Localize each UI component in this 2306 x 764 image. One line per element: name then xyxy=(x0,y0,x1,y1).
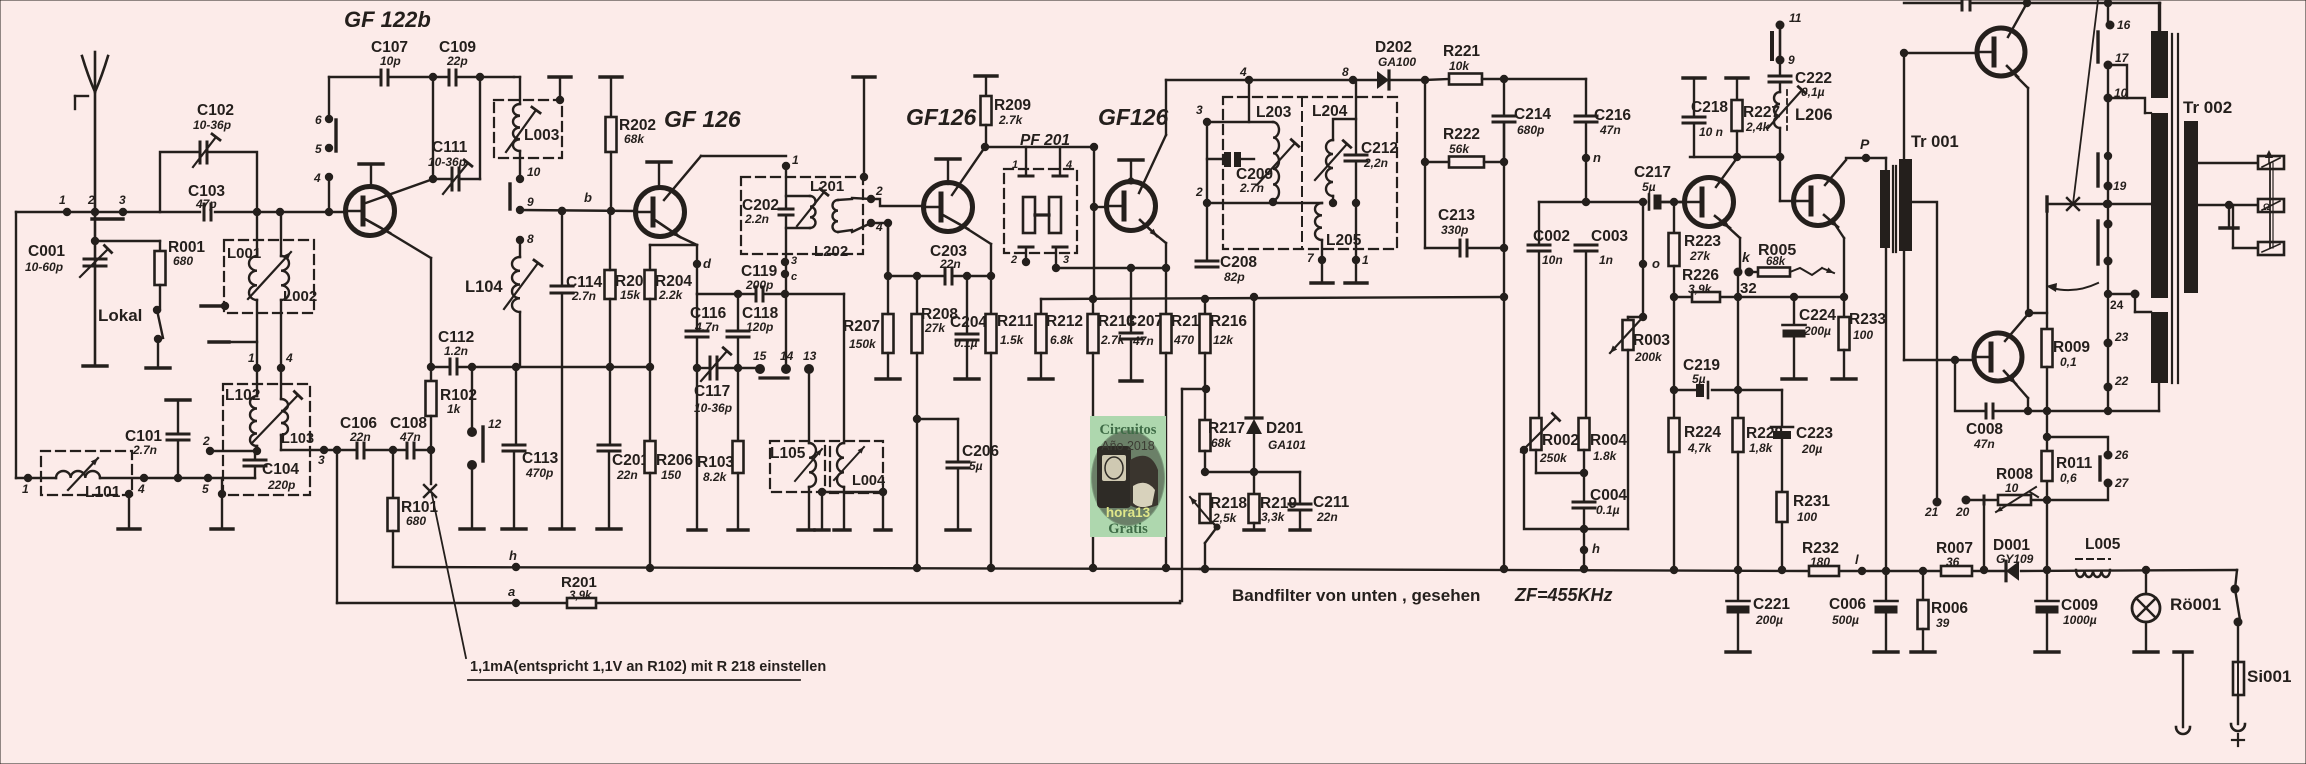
ground C009 xyxy=(2035,650,2059,653)
capacitor C209 xyxy=(1224,152,1231,167)
svg-text:Rö001: Rö001 xyxy=(2170,595,2221,614)
svg-text:GF126: GF126 xyxy=(906,104,977,130)
dashed box L003 xyxy=(494,100,562,158)
transistor T3 GF126 xyxy=(924,183,973,232)
resistor R218 pot xyxy=(1200,494,1211,523)
svg-text:2.7n: 2.7n xyxy=(132,443,157,457)
svg-text:GF 126: GF 126 xyxy=(664,106,741,132)
svg-text:Circuitos: Circuitos xyxy=(1100,422,1157,438)
capacitor C108 xyxy=(406,443,409,458)
svg-text:10: 10 xyxy=(2005,481,2019,495)
ground C211 xyxy=(1290,528,1310,531)
junction R208 elbow xyxy=(913,415,921,423)
resistor R207 xyxy=(887,223,889,276)
svg-text:C223: C223 xyxy=(1796,425,1833,442)
ground mid xyxy=(221,478,223,527)
speaker column mid xyxy=(2107,65,2109,98)
wire 27 down xyxy=(2047,483,2108,500)
node n xyxy=(1582,154,1590,162)
svg-text:2: 2 xyxy=(202,434,210,448)
wire row y=367 xyxy=(431,366,450,368)
svg-text:l: l xyxy=(1855,552,1859,567)
capacitor C217 xyxy=(1648,195,1651,210)
svg-text:4: 4 xyxy=(1239,65,1247,79)
svg-text:10-60p: 10-60p xyxy=(25,260,63,274)
switch bar 6-5 xyxy=(334,120,337,151)
ground lamp xyxy=(2134,650,2158,653)
ground C114 xyxy=(550,527,574,530)
switch under R001 xyxy=(153,306,161,314)
coil L201 xyxy=(786,195,810,197)
svg-text:39: 39 xyxy=(1936,616,1950,630)
svg-text:10-36p: 10-36p xyxy=(428,155,466,169)
terminal bar left of box xyxy=(221,302,229,310)
transformer Tr002 core xyxy=(2171,34,2173,383)
resistor R224 xyxy=(1673,390,1675,418)
svg-text:C204: C204 xyxy=(950,314,987,331)
capacitor C111 trimmer xyxy=(451,168,454,190)
ground R001 switch xyxy=(146,366,170,369)
svg-text:C009: C009 xyxy=(2061,597,2098,614)
svg-text:4: 4 xyxy=(285,351,293,365)
svg-text:2.2k: 2.2k xyxy=(658,288,684,302)
capacitor C112 xyxy=(449,359,452,374)
wire L105-L004 link xyxy=(822,491,883,493)
svg-text:L203: L203 xyxy=(1256,104,1292,121)
svg-text:R003: R003 xyxy=(1633,332,1670,349)
secondary wire mid xyxy=(2198,204,2258,206)
svg-text:R211: R211 xyxy=(997,313,1034,330)
node 27 xyxy=(2104,479,2113,488)
switch bar 16-17 xyxy=(2096,32,2099,62)
svg-text:1: 1 xyxy=(1012,159,1018,171)
wire L103 to node3 xyxy=(281,449,324,451)
svg-text:D201: D201 xyxy=(1266,420,1303,437)
svg-text:4: 4 xyxy=(1065,159,1072,171)
resistor R232 xyxy=(1809,566,1839,576)
svg-text:o: o xyxy=(1652,256,1660,271)
supply bar L003 xyxy=(549,75,571,78)
T1 emitter wire xyxy=(365,219,390,233)
node l xyxy=(1858,567,1866,575)
svg-text:d: d xyxy=(703,256,712,271)
svg-text:4,7k: 4,7k xyxy=(1687,441,1713,455)
wire R002-R004 xyxy=(1536,472,1584,474)
svg-text:180: 180 xyxy=(1810,555,1830,569)
T6 collector xyxy=(1825,160,1846,185)
node a xyxy=(512,599,520,607)
wire pin3 row y=268 xyxy=(1056,267,1166,269)
dashed box L004 xyxy=(830,441,883,493)
svg-text:24: 24 xyxy=(2110,298,2124,312)
svg-text:1.5k: 1.5k xyxy=(1000,333,1025,347)
capacitor C009 xyxy=(2046,570,2048,600)
T4 base lead xyxy=(1094,206,1107,208)
svg-text:C104: C104 xyxy=(262,461,299,478)
wire 17 link xyxy=(2108,65,2127,98)
svg-text:13: 13 xyxy=(803,349,817,363)
capacitor C208 xyxy=(1206,203,1208,261)
svg-text:150: 150 xyxy=(661,468,681,482)
T3 rail bar xyxy=(936,157,960,160)
svg-text:R004: R004 xyxy=(1590,432,1627,449)
svg-text:220p: 220p xyxy=(267,478,295,492)
Tr002 top feed xyxy=(2158,3,2160,31)
svg-text:200k: 200k xyxy=(1634,350,1663,364)
Tr001 secondary top xyxy=(1903,53,1905,160)
arrow L203 xyxy=(1257,143,1295,185)
svg-text:680: 680 xyxy=(406,514,426,528)
node pi xyxy=(1776,21,1785,30)
ground C224 xyxy=(1782,377,1806,380)
T1 collector rail bar xyxy=(359,162,383,165)
column mid2 xyxy=(2107,224,2109,294)
base junction xyxy=(1670,198,1678,206)
ground R212 xyxy=(1029,377,1053,380)
svg-text:200µ: 200µ xyxy=(1755,613,1783,627)
coil L204 xyxy=(1333,119,1356,140)
resistor R226 xyxy=(1692,292,1720,302)
node 2 T3 xyxy=(867,195,875,203)
svg-text:27: 27 xyxy=(2114,476,2130,490)
svg-text:R206: R206 xyxy=(656,452,693,469)
svg-text:20µ: 20µ xyxy=(1801,442,1822,456)
coil L001 xyxy=(253,208,261,216)
capacitor C001 xyxy=(84,258,106,261)
dashed box L101 xyxy=(41,451,132,495)
svg-text:R009: R009 xyxy=(2053,339,2090,356)
capacitor C103 xyxy=(203,204,206,220)
svg-text:P: P xyxy=(1860,136,1870,152)
node 9 xyxy=(516,206,524,214)
svg-text:5: 5 xyxy=(202,482,209,496)
wire node2 to base xyxy=(871,199,924,206)
svg-text:15k: 15k xyxy=(620,288,641,302)
junction C219 xyxy=(1734,386,1742,394)
svg-text:C113: C113 xyxy=(522,450,559,467)
svg-text:2.7k: 2.7k xyxy=(998,113,1024,127)
node 5 xyxy=(325,144,333,152)
wire node2 xyxy=(206,447,214,455)
coil L104 xyxy=(519,240,521,257)
capacitor C116 xyxy=(696,294,698,331)
svg-text:R224: R224 xyxy=(1684,424,1721,441)
transistor T5 xyxy=(1685,178,1734,227)
switch bar 19 xyxy=(2096,154,2099,186)
switch right xyxy=(2231,585,2240,594)
transistor T2 GF126 xyxy=(636,188,685,237)
arrow L003 xyxy=(506,110,536,152)
svg-text:C001: C001 xyxy=(28,243,65,260)
resistor R004 xyxy=(1579,418,1590,450)
node 12 switch xyxy=(468,363,476,371)
svg-text:2: 2 xyxy=(875,184,883,198)
svg-text:R217: R217 xyxy=(1208,420,1245,437)
svg-text:470p: 470p xyxy=(525,466,553,480)
node 1 L101 xyxy=(24,474,32,482)
svg-text:L204: L204 xyxy=(1312,103,1348,120)
resistor R208 xyxy=(913,272,921,280)
svg-text:3: 3 xyxy=(119,193,126,207)
junction c3 xyxy=(781,258,789,266)
dashed box L201 L202 xyxy=(741,177,863,254)
svg-text:3: 3 xyxy=(1196,103,1203,117)
arrow L105 xyxy=(795,449,822,481)
svg-text:8: 8 xyxy=(1342,65,1349,79)
svg-text:3: 3 xyxy=(318,453,325,467)
svg-text:3,9k: 3,9k xyxy=(1688,282,1713,296)
svg-text:C224: C224 xyxy=(1799,307,1836,324)
node 16 xyxy=(2106,21,2115,30)
capacitor C218 xyxy=(1683,76,1705,79)
svg-text:17: 17 xyxy=(2115,51,2130,65)
wire node14 up xyxy=(785,294,787,369)
resistor R216 xyxy=(1201,295,1209,303)
secondary wire bottom xyxy=(2232,205,2234,248)
coil L101 xyxy=(56,471,100,478)
T4 rail bar xyxy=(1119,158,1143,161)
coil L102 xyxy=(256,368,258,396)
node 13 xyxy=(804,364,814,374)
wire R217 junction row xyxy=(1201,468,1209,476)
dashed box L105 xyxy=(770,441,825,492)
wire C219 row xyxy=(1670,386,1678,394)
svg-text:ZF=455KHz: ZF=455KHz xyxy=(1514,585,1613,605)
T4 collector xyxy=(1139,135,1166,193)
svg-text:b: b xyxy=(584,190,592,205)
node 20 xyxy=(1962,496,1971,505)
dashed box PF201 xyxy=(1004,169,1077,253)
svg-text:68k: 68k xyxy=(1211,436,1232,450)
wire 20 xyxy=(1966,499,1984,501)
svg-text:R006: R006 xyxy=(1931,600,1968,617)
transistor T7 output xyxy=(1977,28,2025,76)
capacitor C117 trimmer xyxy=(709,357,712,379)
svg-text:2,2n: 2,2n xyxy=(1363,156,1388,170)
resistor R219 xyxy=(1253,472,1255,494)
node 5 osc xyxy=(204,474,212,482)
svg-text:1: 1 xyxy=(22,482,29,496)
capacitor C216 xyxy=(1585,79,1587,116)
svg-text:10-36p: 10-36p xyxy=(193,118,231,132)
svg-text:2.2n: 2.2n xyxy=(744,212,769,226)
svg-text:500µ: 500µ xyxy=(1832,613,1859,627)
ground L105 xyxy=(798,528,814,531)
ground R103 xyxy=(728,528,748,531)
svg-text:GF126: GF126 xyxy=(1098,104,1169,130)
node 21 xyxy=(1933,498,1942,507)
ground C113 xyxy=(502,527,526,530)
node 10 xyxy=(516,175,524,183)
wire C203 row xyxy=(888,275,945,277)
diode D201 xyxy=(1250,293,1258,301)
svg-text:C003: C003 xyxy=(1591,228,1628,245)
svg-text:C004: C004 xyxy=(1590,487,1627,504)
node 3 L203 xyxy=(1203,118,1211,126)
wire R011 top xyxy=(2043,433,2051,441)
svg-text:C006: C006 xyxy=(1829,596,1866,613)
node 4 switch xyxy=(325,173,333,181)
svg-text:2.7k: 2.7k xyxy=(1100,333,1126,347)
svg-text:68k: 68k xyxy=(1766,256,1786,268)
ground C006 xyxy=(1874,650,1898,653)
T2 collector wire xyxy=(664,156,701,200)
ground C221 xyxy=(1726,650,1750,653)
capacitor C204 xyxy=(963,272,971,280)
capacitor C118 xyxy=(737,294,739,331)
capacitor C224 xyxy=(1790,293,1798,301)
svg-text:16: 16 xyxy=(2117,18,2131,32)
resistor R003 pot xyxy=(1639,198,1647,206)
coil L105 wire xyxy=(808,369,810,443)
PF201 pin 1 xyxy=(1025,147,1027,176)
Tr002 winding bottom xyxy=(2151,312,2168,383)
wire y=157 rail xyxy=(1690,156,1783,158)
node 8 D202 xyxy=(1349,76,1357,84)
node 6 xyxy=(325,115,333,123)
svg-text:0,6: 0,6 xyxy=(2060,471,2077,485)
resistor R223 xyxy=(1673,202,1675,233)
svg-text:1n: 1n xyxy=(1599,253,1613,267)
fuse Si001 xyxy=(2237,622,2239,662)
svg-text:27k: 27k xyxy=(924,321,946,335)
svg-text:Bandfilter von unten , gesehe: Bandfilter von unten , gesehen xyxy=(1232,586,1480,605)
node below xyxy=(2104,257,2113,266)
switch bar 15-14 xyxy=(760,376,788,379)
speaker column xyxy=(2107,3,2109,25)
svg-text:2.7n: 2.7n xyxy=(1239,181,1264,195)
node 3 osc xyxy=(320,446,328,454)
resistor R217 xyxy=(1200,420,1211,451)
T6 base xyxy=(1779,157,1781,201)
resistor R101 xyxy=(392,450,394,498)
node 17 xyxy=(2104,61,2113,70)
node 4 D202 xyxy=(1245,76,1253,84)
svg-text:C102: C102 xyxy=(197,102,234,119)
svg-text:5µ: 5µ xyxy=(1642,180,1656,194)
arrow L001/L002 xyxy=(248,252,291,299)
node 24 xyxy=(2131,290,2140,299)
long diagonal xyxy=(2073,0,2098,204)
wire node4 to base xyxy=(328,177,330,212)
switch bar 22-23 xyxy=(2096,221,2099,264)
svg-text:47n: 47n xyxy=(1132,334,1154,348)
resistor R203 xyxy=(605,270,616,299)
node 26 xyxy=(2104,451,2113,460)
wire 26 27 branch xyxy=(2047,437,2108,452)
wire R204 emitter xyxy=(650,244,697,246)
ground C207 xyxy=(1120,379,1142,382)
svg-text:12: 12 xyxy=(488,417,502,431)
supply bar x864 xyxy=(853,75,875,78)
X measure point xyxy=(430,450,432,484)
capacitor C201 xyxy=(609,367,611,445)
capacitor C213 xyxy=(1424,162,1426,248)
svg-text:R011: R011 xyxy=(2056,455,2093,472)
junction R216 bus2 link xyxy=(1202,385,1210,393)
ground 12 xyxy=(460,527,484,530)
wire base row y=212 xyxy=(16,211,200,213)
svg-text:0.1µ: 0.1µ xyxy=(1596,503,1620,517)
R009 top tick xyxy=(2045,197,2048,211)
terminal low xyxy=(2258,242,2284,255)
svg-text:22: 22 xyxy=(2114,374,2129,388)
arrow L004 xyxy=(834,447,864,480)
svg-text:330p: 330p xyxy=(1441,223,1468,237)
resistor R011 xyxy=(2042,451,2053,481)
terminal link xyxy=(2269,163,2271,248)
ground node1 xyxy=(1345,281,1367,284)
ground C206 xyxy=(946,528,970,531)
resistor R227 xyxy=(1726,76,1748,79)
svg-text:5: 5 xyxy=(315,142,322,156)
svg-text:5µ: 5µ xyxy=(1692,372,1706,386)
svg-text:R207: R207 xyxy=(843,318,880,335)
svg-text:R213: R213 xyxy=(1098,313,1135,330)
svg-text:680: 680 xyxy=(173,254,193,268)
Tr002 bottom wire xyxy=(2158,383,2160,411)
transformer Tr001 primary wire xyxy=(1885,158,1887,171)
ground C116 xyxy=(688,528,706,531)
svg-text:3: 3 xyxy=(1063,254,1069,266)
wire R209 to PF201 xyxy=(985,146,1094,148)
switch bar 26-27 xyxy=(2098,457,2101,480)
ground tap xyxy=(2228,205,2230,226)
coil L105 xyxy=(809,443,816,487)
svg-text:1k: 1k xyxy=(447,402,462,416)
transistor T1 GF122b xyxy=(346,187,395,236)
svg-text:47n: 47n xyxy=(1973,437,1995,451)
svg-text:68k: 68k xyxy=(624,132,645,146)
resistor R212 xyxy=(1040,299,1042,314)
ground L101 xyxy=(125,490,133,498)
svg-text:2: 2 xyxy=(1010,254,1017,266)
coil L004 feed xyxy=(843,294,845,443)
transistor T6 xyxy=(1794,177,1843,226)
svg-text:R218: R218 xyxy=(1210,495,1247,512)
svg-text:R231: R231 xyxy=(1793,493,1830,510)
node 19 xyxy=(2104,182,2113,191)
Tr002 winding top xyxy=(2151,31,2168,98)
coil L004 xyxy=(837,443,844,487)
wire C119 row xyxy=(697,293,756,295)
capacitor C206 xyxy=(957,419,959,462)
svg-text:19: 19 xyxy=(2113,179,2127,193)
coil L206 xyxy=(1774,92,1780,128)
column 23-22 xyxy=(2107,294,2109,343)
svg-text:470: 470 xyxy=(1173,333,1194,347)
svg-text:26: 26 xyxy=(2114,448,2129,462)
switch bar pi xyxy=(1770,33,1774,59)
top rail y=3 xyxy=(1904,2,1962,4)
svg-text:L004: L004 xyxy=(852,473,885,489)
junction C214 xyxy=(1500,75,1508,83)
svg-text:27k: 27k xyxy=(1689,249,1711,263)
svg-text:R223: R223 xyxy=(1684,233,1721,250)
svg-text:12k: 12k xyxy=(1213,333,1234,347)
svg-text:56k: 56k xyxy=(1449,142,1470,156)
svg-text:R201: R201 xyxy=(561,574,597,591)
coil L203 xyxy=(1207,121,1273,123)
node 4 below L002 xyxy=(277,364,285,372)
resistor R213 xyxy=(1089,295,1097,303)
resistor R204 xyxy=(649,245,651,270)
PF201 body xyxy=(1023,197,1035,233)
ground R006 xyxy=(1911,650,1935,653)
svg-text:4.7n: 4.7n xyxy=(694,320,719,334)
T2 rail bar xyxy=(647,160,671,163)
node 1 below L001 xyxy=(253,364,261,372)
